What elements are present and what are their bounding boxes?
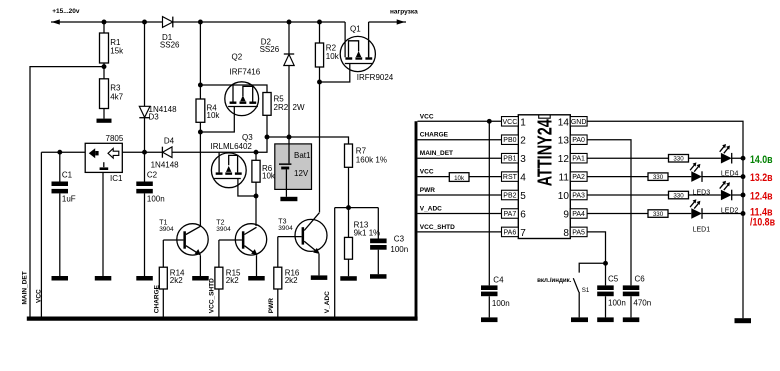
- svg-text:2R2: 2R2: [274, 103, 289, 112]
- svg-text:6: 6: [520, 210, 526, 221]
- svg-text:VCC: VCC: [420, 169, 434, 176]
- svg-text:3904: 3904: [159, 226, 174, 233]
- svg-text:VCC_SHTD: VCC_SHTD: [209, 278, 216, 313]
- svg-text:9: 9: [563, 210, 569, 221]
- svg-text:CHARGE: CHARGE: [154, 284, 161, 313]
- svg-text:PWR: PWR: [268, 298, 275, 313]
- svg-text:100n: 100n: [147, 195, 165, 204]
- svg-text:10k: 10k: [454, 175, 465, 182]
- svg-text:100n: 100n: [492, 299, 510, 308]
- svg-text:2W: 2W: [293, 103, 305, 112]
- svg-text:470n: 470n: [633, 299, 651, 308]
- svg-text:IRF7416: IRF7416: [230, 68, 261, 77]
- svg-text:R7: R7: [356, 147, 367, 156]
- svg-text:2k2: 2k2: [226, 276, 239, 285]
- svg-text:330: 330: [653, 174, 664, 181]
- svg-text:PA3: PA3: [572, 193, 585, 200]
- svg-text:10k: 10k: [326, 52, 340, 61]
- svg-text:GND: GND: [571, 119, 587, 126]
- svg-text:14.0в: 14.0в: [750, 154, 773, 166]
- svg-text:ATTINY24: ATTINY24: [533, 119, 556, 186]
- svg-text:Q3: Q3: [242, 133, 253, 142]
- svg-text:CHARGE: CHARGE: [420, 132, 449, 139]
- svg-text:RST: RST: [503, 174, 518, 181]
- svg-text:R5: R5: [274, 94, 285, 103]
- svg-text:5: 5: [520, 191, 526, 202]
- svg-text:14: 14: [558, 117, 570, 128]
- svg-text:C4: C4: [493, 275, 504, 284]
- svg-text:PA2: PA2: [572, 174, 585, 181]
- svg-text:MAIN_DET: MAIN_DET: [420, 150, 453, 157]
- svg-text:12V: 12V: [294, 169, 309, 178]
- svg-text:VCC_SHTD: VCC_SHTD: [420, 224, 455, 231]
- svg-text:12: 12: [558, 154, 570, 165]
- svg-text:3904: 3904: [278, 225, 293, 232]
- svg-text:VCC: VCC: [503, 119, 518, 126]
- svg-text:C6: C6: [635, 275, 646, 284]
- svg-text:нагрузка: нагрузка: [390, 9, 418, 16]
- svg-text:V_ADC: V_ADC: [420, 206, 442, 213]
- svg-text:2k2: 2k2: [170, 276, 183, 285]
- svg-text:/10.8в: /10.8в: [750, 216, 775, 228]
- svg-text:3904: 3904: [216, 226, 231, 233]
- svg-text:15k: 15k: [110, 47, 124, 56]
- svg-text:330: 330: [673, 156, 684, 163]
- svg-text:330: 330: [673, 192, 684, 199]
- svg-text:D4: D4: [164, 137, 175, 146]
- svg-text:Q2: Q2: [232, 53, 243, 62]
- svg-text:10: 10: [558, 191, 570, 202]
- svg-text:PB0: PB0: [503, 137, 516, 144]
- svg-text:D3: D3: [149, 113, 160, 122]
- svg-text:100n: 100n: [390, 245, 408, 254]
- svg-text:4k7: 4k7: [110, 92, 123, 101]
- svg-text:1uF: 1uF: [62, 195, 76, 204]
- svg-text:PA6: PA6: [504, 229, 517, 236]
- svg-text:SS26: SS26: [260, 45, 280, 54]
- svg-text:13.2в: 13.2в: [750, 172, 773, 184]
- svg-text:2k2: 2k2: [285, 276, 298, 285]
- svg-text:C5: C5: [608, 275, 619, 284]
- svg-text:S1: S1: [582, 287, 590, 294]
- svg-text:вкл./индик.: вкл./индик.: [537, 277, 572, 284]
- svg-text:12.4в: 12.4в: [750, 191, 773, 203]
- svg-text:PA5: PA5: [572, 229, 585, 236]
- svg-text:PA0: PA0: [572, 137, 585, 144]
- svg-text:C1: C1: [62, 171, 73, 180]
- svg-text:PWR: PWR: [420, 187, 435, 194]
- svg-text:4: 4: [520, 173, 526, 184]
- svg-text:3: 3: [520, 154, 526, 165]
- svg-text:IRFR9024: IRFR9024: [357, 73, 394, 82]
- svg-text:+15...20v: +15...20v: [52, 8, 80, 15]
- svg-text:100n: 100n: [608, 299, 626, 308]
- svg-text:8: 8: [563, 228, 569, 239]
- svg-text:PA4: PA4: [572, 211, 585, 218]
- svg-text:160k 1%: 160k 1%: [356, 156, 387, 165]
- svg-text:PA7: PA7: [504, 211, 517, 218]
- svg-text:LED2: LED2: [721, 208, 739, 215]
- svg-text:R3: R3: [110, 84, 121, 93]
- svg-text:V_ADC: V_ADC: [324, 291, 331, 313]
- svg-text:Q1: Q1: [350, 25, 361, 34]
- svg-text:PB2: PB2: [503, 193, 516, 200]
- svg-text:11: 11: [559, 173, 570, 184]
- svg-text:IRLML6402: IRLML6402: [211, 142, 253, 151]
- svg-text:LED1: LED1: [693, 226, 711, 233]
- svg-text:10k: 10k: [207, 111, 221, 120]
- svg-text:9k1 1%: 9k1 1%: [354, 228, 381, 237]
- svg-text:C3: C3: [394, 234, 405, 243]
- svg-text:1: 1: [520, 117, 526, 128]
- svg-text:10k: 10k: [262, 172, 276, 181]
- svg-text:330: 330: [653, 211, 664, 218]
- svg-text:PB1: PB1: [503, 156, 516, 163]
- svg-text:MAIN_DET: MAIN_DET: [21, 271, 28, 304]
- svg-text:LED4: LED4: [721, 170, 739, 177]
- svg-text:PA1: PA1: [572, 156, 585, 163]
- svg-text:2: 2: [520, 136, 526, 147]
- svg-text:LED3: LED3: [693, 189, 711, 196]
- svg-text:VCC: VCC: [420, 113, 434, 120]
- svg-text:VCC: VCC: [36, 289, 43, 303]
- svg-text:IC1: IC1: [110, 174, 123, 183]
- svg-text:SS26: SS26: [160, 41, 180, 50]
- svg-text:13: 13: [558, 136, 570, 147]
- svg-text:C2: C2: [147, 171, 158, 180]
- svg-text:7: 7: [520, 228, 526, 239]
- svg-text:1N4148: 1N4148: [151, 160, 180, 169]
- svg-text:7805: 7805: [106, 134, 124, 143]
- svg-text:Bat1: Bat1: [294, 151, 311, 160]
